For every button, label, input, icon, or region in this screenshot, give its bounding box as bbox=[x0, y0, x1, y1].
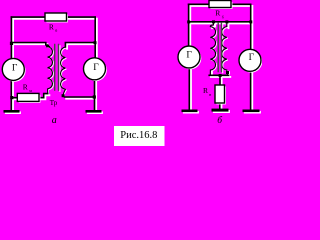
svg-text:R: R bbox=[23, 82, 28, 91]
wire mid-left horizontal bbox=[11, 43, 46, 45]
wire right vertical (b) bbox=[250, 4, 252, 49]
svg-text:Рис.16.8: Рис.16.8 bbox=[120, 130, 157, 141]
svg-text:Г: Г bbox=[186, 50, 192, 60]
wire bottom right segment bbox=[65, 96, 95, 98]
transformer T1 primary winding bbox=[47, 45, 53, 94]
wire right vertical bbox=[94, 17, 96, 58]
svg-text:б: б bbox=[222, 15, 224, 20]
junction at secondary winding bottom terminal bbox=[62, 94, 65, 97]
svg-text:Г: Г bbox=[93, 63, 99, 73]
wire resistor drop (b) bbox=[219, 75, 221, 109]
wire right vertical lower (b) bbox=[250, 71, 252, 109]
ground GND4 (middle, right circuit) bbox=[212, 109, 230, 113]
junction at primary winding top terminal (b) bbox=[212, 20, 215, 23]
svg-text:б: б bbox=[55, 28, 57, 33]
svg-text:R: R bbox=[49, 22, 54, 31]
junction at secondary winding bottom terminal (b) bbox=[226, 71, 229, 74]
wire left vertical lower (b) bbox=[188, 68, 190, 110]
ground GND3 (left, right circuit) bbox=[182, 110, 199, 114]
junction on left vertical at second rail bbox=[187, 20, 190, 23]
junction at primary winding top terminal bbox=[46, 45, 49, 48]
transformer T2 core bbox=[218, 23, 221, 72]
junction on left vertical at bottom wire bbox=[10, 96, 13, 99]
svg-text:R: R bbox=[203, 86, 208, 95]
transformer T1 core bbox=[55, 45, 59, 91]
caption box bbox=[114, 126, 165, 146]
wire second rail (b) bbox=[189, 21, 251, 23]
resistor R2 (bottom-left horizontal) bbox=[17, 93, 40, 102]
svg-text:Тр: Тр bbox=[50, 99, 58, 107]
resistor R1 (top, left circuit) bbox=[45, 13, 68, 22]
svg-text:Г: Г bbox=[12, 63, 18, 73]
wire bottom left segments bbox=[11, 94, 47, 98]
ground GND1 (left) bbox=[4, 110, 21, 114]
junction on right vertical at second rail bbox=[249, 20, 252, 23]
junction at resistor drop on bottom bar (b) bbox=[219, 74, 222, 77]
galvanometer G2 (right) bbox=[84, 58, 107, 81]
junction at secondary winding top terminal (b) bbox=[225, 20, 228, 23]
wire mid-right horizontal bbox=[65, 43, 95, 48]
transformer T2 secondary winding bbox=[222, 22, 228, 75]
wire transformer bottom bar (b) bbox=[209, 74, 228, 76]
transformer T1 secondary winding bbox=[61, 47, 66, 96]
svg-text:а: а bbox=[52, 115, 57, 126]
wire right vertical lower bbox=[94, 80, 96, 110]
galvanometer G4 (right, right circuit) bbox=[239, 49, 262, 72]
resistor R4 (vertical, right circuit) bbox=[215, 85, 226, 104]
ground GND5 (right, right circuit) bbox=[243, 110, 261, 114]
galvanometer G3 (left, right circuit) bbox=[178, 46, 201, 69]
galvanometer G1 (left) bbox=[2, 58, 25, 81]
junction on left vertical at mid rail bbox=[10, 42, 13, 45]
transformer T2 primary winding bbox=[210, 22, 215, 75]
junction on right vertical at bottom wire bbox=[93, 95, 96, 98]
svg-text:Г: Г bbox=[249, 53, 255, 63]
wire top rail (b) bbox=[189, 3, 251, 5]
wire top rail bbox=[11, 16, 95, 18]
ground GND2 (right of left circuit) bbox=[86, 110, 103, 114]
junction on right vertical at mid rail bbox=[94, 41, 97, 44]
resistor R3 (top, right circuit) bbox=[209, 1, 232, 9]
svg-text:R: R bbox=[215, 8, 220, 17]
wire left vertical bbox=[10, 17, 12, 58]
wire left vertical (b) bbox=[188, 4, 190, 46]
halo copies (white, offset down-right) bbox=[13, 19, 97, 112]
wire left vertical lower bbox=[10, 80, 12, 110]
